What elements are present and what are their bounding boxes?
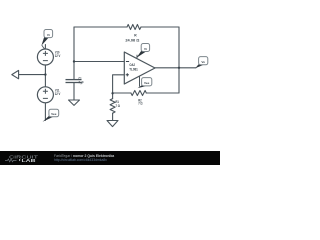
svg-text:Vee: Vee xyxy=(144,81,150,85)
op-amp plus sign xyxy=(126,73,129,76)
svg-text:12 V: 12 V xyxy=(55,54,61,58)
ground under R1 xyxy=(107,121,118,127)
op-amp V+ pin stub xyxy=(136,55,138,59)
wire capacitor bottom to ground xyxy=(73,83,75,100)
svg-text:http://circuitlab.com/c6k433dm: http://circuitlab.com/c6k433dmka8v xyxy=(54,158,107,162)
wire non-inverting input xyxy=(113,75,125,94)
left arrow terminal xyxy=(12,70,19,78)
wire between V10 and V11 xyxy=(44,65,46,87)
svg-text:7 μF: 7 μF xyxy=(79,80,84,84)
op-amp V- pin stub xyxy=(139,76,141,86)
wire top horizontal right segment xyxy=(141,26,179,28)
wire V10 top stub xyxy=(44,45,46,50)
op-amp minus sign xyxy=(126,61,129,63)
resistor R1 top lead xyxy=(112,93,114,98)
junction node at R1/R2 xyxy=(111,92,113,94)
svg-text:7 Ω: 7 Ω xyxy=(116,104,121,108)
voltage source V11 xyxy=(37,87,53,103)
svg-text:24.06 Ω: 24.06 Ω xyxy=(125,38,139,42)
junction node between sources xyxy=(44,73,46,75)
svg-text:Vee: Vee xyxy=(51,112,57,116)
ground under C1 xyxy=(69,100,80,105)
wire top horizontal left segment xyxy=(74,26,127,28)
op-amp OA2 xyxy=(124,52,155,84)
net flag Vo at output xyxy=(195,57,208,69)
svg-text:12 V: 12 V xyxy=(55,92,61,96)
wire inverting input xyxy=(74,61,124,63)
capacitor C1 plates xyxy=(66,80,82,83)
voltage source V10 xyxy=(37,49,53,65)
svg-text:7 Ω: 7 Ω xyxy=(138,101,143,105)
wire from left arrow to sources midpoint xyxy=(19,74,46,76)
svg-text:LAB: LAB xyxy=(22,158,36,163)
junction node at cap/inverting input xyxy=(73,60,75,62)
wire left vertical from top to capacitor xyxy=(73,27,75,79)
svg-text:Vi: Vi xyxy=(144,47,147,51)
wire bottom horizontal left segment xyxy=(113,92,131,94)
resistor R2 zigzag xyxy=(131,91,146,96)
svg-text:TL081: TL081 xyxy=(129,67,138,71)
resistor R1 bottom lead xyxy=(112,113,114,120)
resistor R zigzag xyxy=(127,25,141,30)
resistor R1 zigzag xyxy=(110,99,115,114)
footer bar xyxy=(0,151,220,165)
svg-text:Vi: Vi xyxy=(47,33,50,37)
wire right vertical xyxy=(178,27,180,93)
wire V11 bottom stub xyxy=(44,103,46,121)
wire bottom horizontal right segment xyxy=(146,92,179,94)
net flag Vee at V11 xyxy=(43,109,59,122)
junction node at output xyxy=(178,67,180,69)
net flag Vee at op-amp V- xyxy=(138,78,152,89)
net flag Vi at op-amp V+ xyxy=(136,44,149,58)
footer CircuitLab logo xyxy=(5,155,38,163)
net flag Vi at V10 xyxy=(41,30,52,50)
wires xyxy=(19,25,197,121)
svg-text:Vo: Vo xyxy=(201,60,205,64)
wire op-amp output xyxy=(155,67,196,69)
